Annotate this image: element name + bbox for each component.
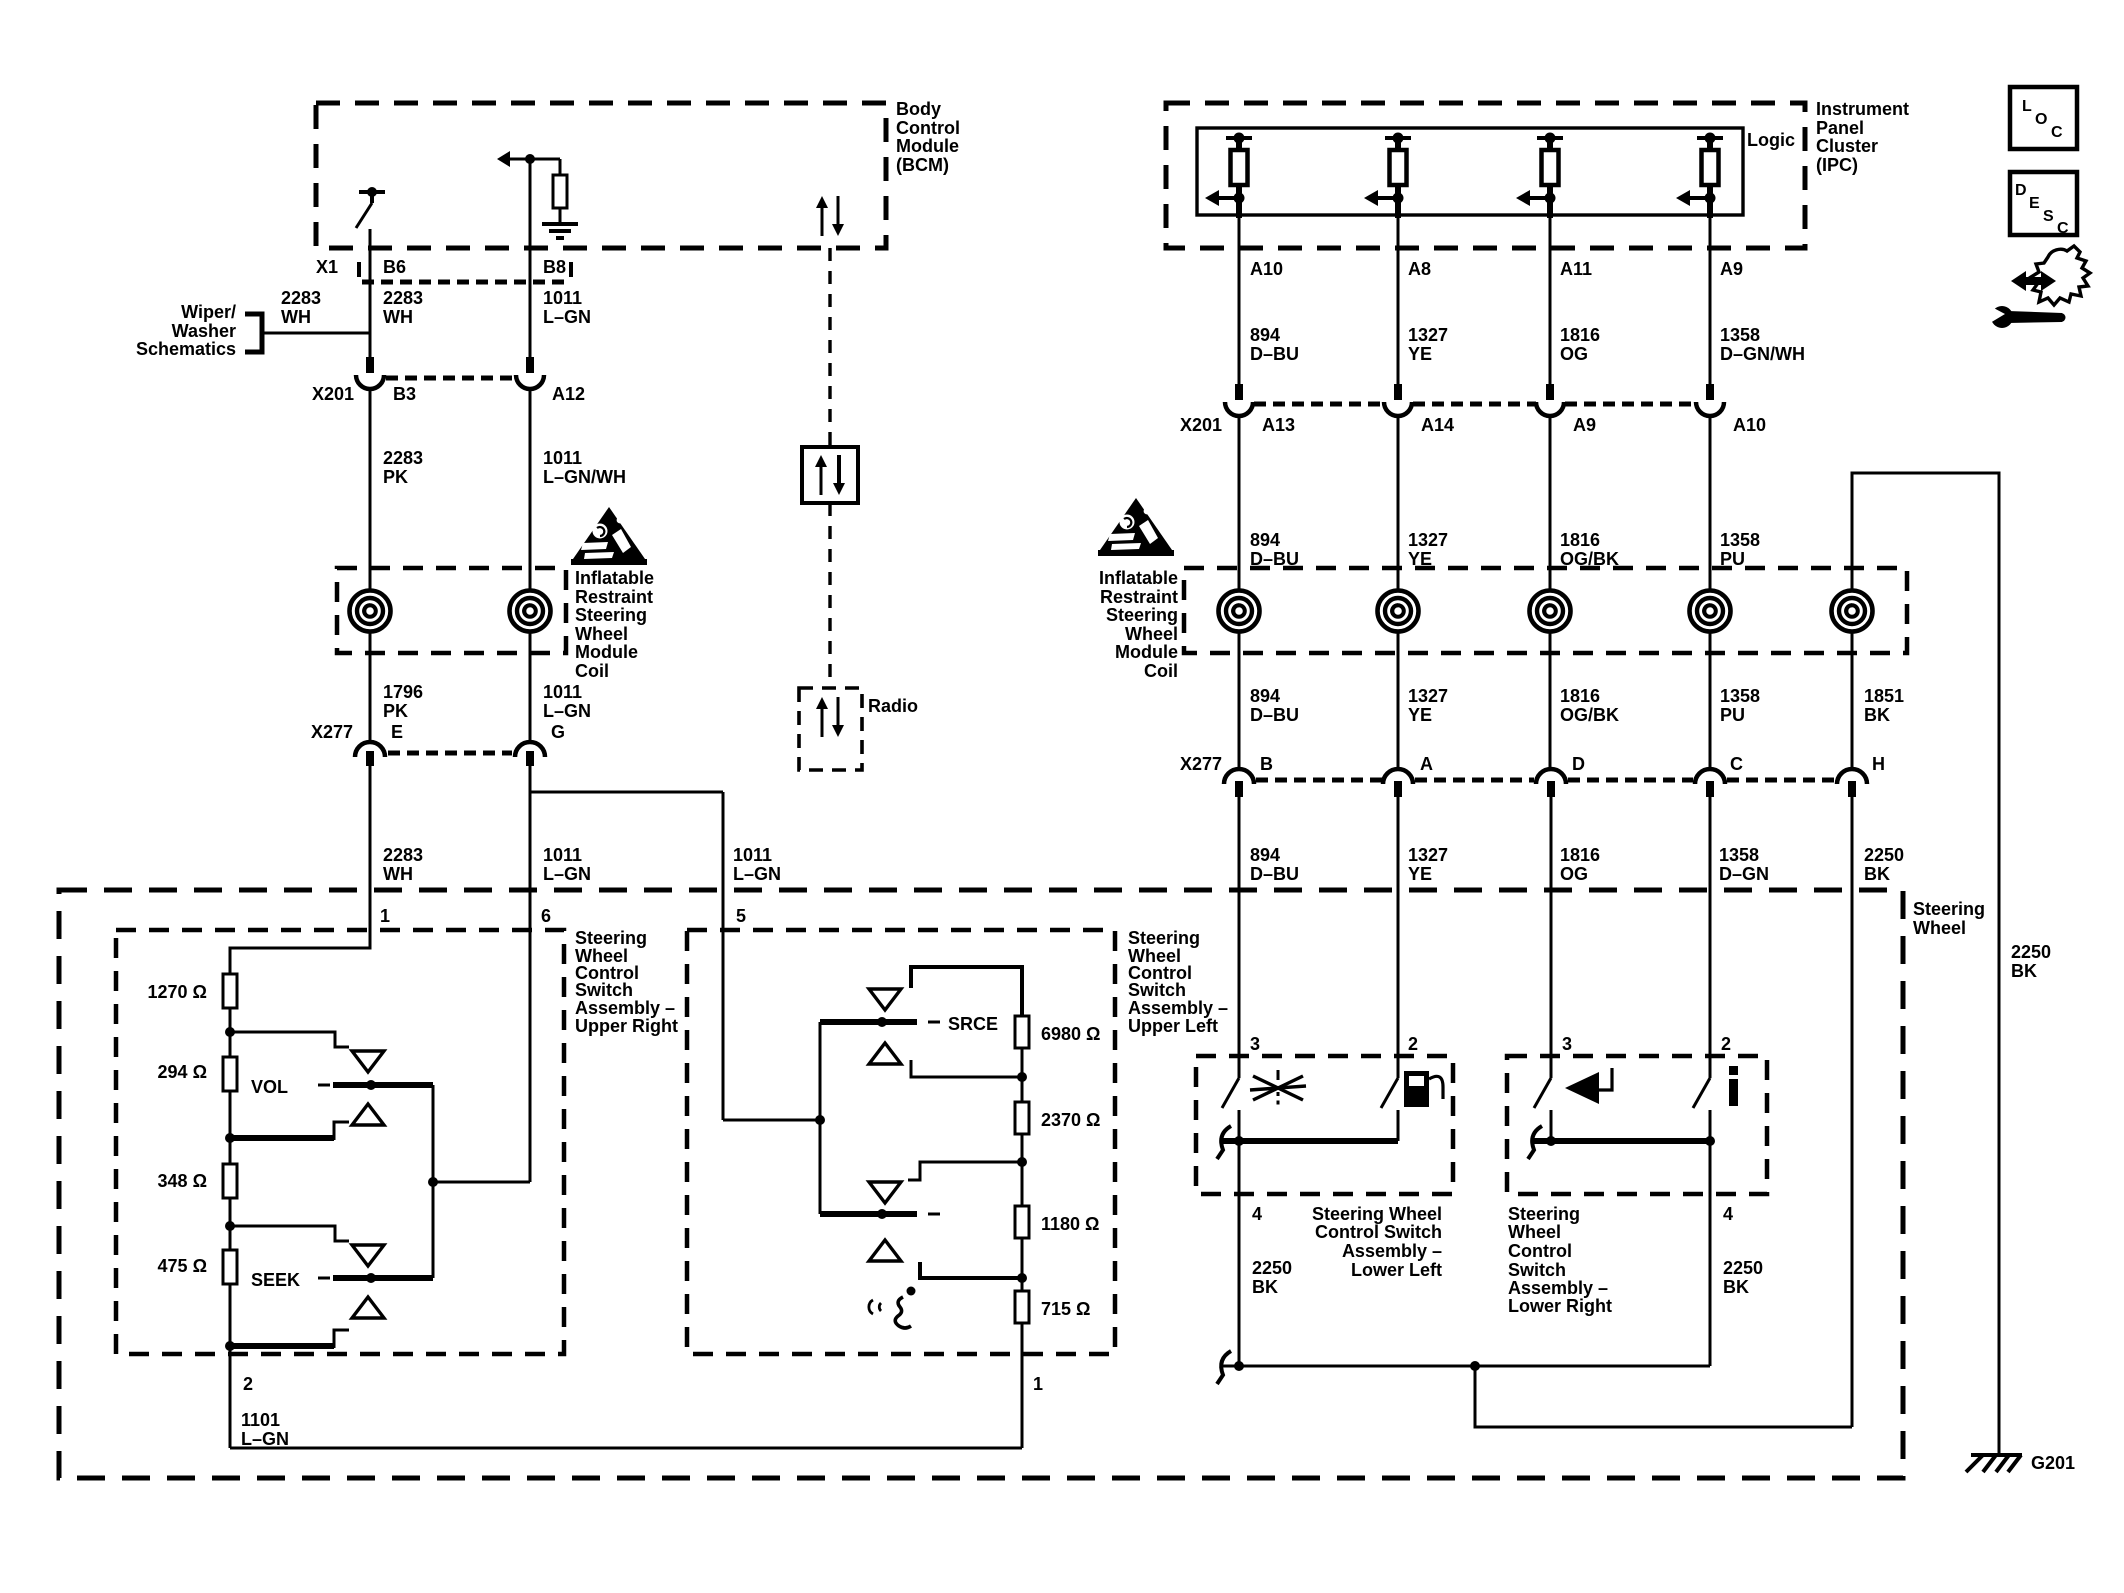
svg-text:SRCE: SRCE — [948, 1014, 998, 1034]
svg-text:Coil: Coil — [575, 661, 609, 681]
wire: ground bus to 2250 BK return — [1475, 1366, 1852, 1427]
svg-text:1270 Ω: 1270 Ω — [148, 982, 207, 1002]
svg-text:Control: Control — [1508, 1241, 1572, 1261]
resistor 475 ohm — [223, 1250, 237, 1284]
component box: Inflatable Restraint Steering Wheel Module Coil (left) — [337, 568, 566, 653]
wires: X201 to coil (right) — [1238, 415, 1241, 590]
svg-text:2: 2 — [1408, 1034, 1418, 1054]
svg-text:WH: WH — [383, 307, 413, 327]
warning triangle: airbag caution (right) — [1100, 498, 1172, 550]
svg-text:Steering: Steering — [1106, 605, 1178, 625]
svg-text:Radio: Radio — [868, 696, 918, 716]
svg-text:BK: BK — [1864, 705, 1890, 725]
svg-text:E: E — [391, 722, 403, 742]
svg-text:B: B — [1260, 754, 1273, 774]
svg-text:X201: X201 — [1180, 415, 1222, 435]
wire: 1327 YE to lower-left switch pin 2 — [1397, 797, 1400, 1078]
svg-text:D–BU: D–BU — [1250, 864, 1299, 884]
svg-text:1816: 1816 — [1560, 845, 1600, 865]
svg-text:Module: Module — [896, 136, 959, 156]
second switch up triangle — [869, 1182, 901, 1203]
svg-text:L: L — [2022, 98, 2032, 115]
svg-text:894: 894 — [1250, 686, 1280, 706]
second switch down fixed contact (bold) — [920, 1262, 1022, 1278]
svg-text:Switch: Switch — [1508, 1260, 1566, 1280]
wire segment + node D (SEEK down tap) — [229, 1284, 232, 1354]
svg-text:BK: BK — [1252, 1277, 1278, 1297]
wire: circuit 2283 WH, X277 E down to switch pin 1 — [369, 766, 372, 948]
svg-text:D–BU: D–BU — [1250, 705, 1299, 725]
legend icon: double arrow with wrench — [2011, 271, 2056, 291]
fuel pump icon — [1404, 1071, 1429, 1107]
IPC pull-up resistor R3 with sense arrow, column 3 — [1537, 136, 1563, 140]
svg-text:A13: A13 — [1262, 415, 1295, 435]
resistor 348 ohm — [223, 1164, 237, 1198]
wire: circuit 2283 PK, X201 B3 to coil — [369, 387, 372, 590]
legend box: DESC — [2010, 172, 2077, 235]
component box: Steering Wheel Control Switch Assembly - Upper Right — [116, 930, 564, 1354]
svg-text:1011: 1011 — [543, 682, 582, 702]
bus: lower-left switch common (bold) — [1222, 1138, 1398, 1144]
wire: IPC column 2 down to X201 — [1397, 218, 1400, 386]
svg-text:Cluster: Cluster — [1816, 136, 1878, 156]
svg-text:2283: 2283 — [383, 845, 423, 865]
svg-text:Coil: Coil — [1144, 661, 1178, 681]
VOL down triangle — [352, 1104, 384, 1125]
svg-text:4: 4 — [1252, 1204, 1262, 1224]
svg-text:X201: X201 — [312, 384, 354, 404]
IPC pull-up resistor R4 with sense arrow, column 4 — [1697, 136, 1723, 140]
svg-text:1011: 1011 — [543, 448, 582, 468]
resistor 715 ohm — [1015, 1291, 1029, 1323]
svg-text:(BCM): (BCM) — [896, 155, 949, 175]
switch blade pin 3 (mute/back) — [1534, 1078, 1551, 1108]
svg-text:B6: B6 — [383, 257, 406, 277]
wire segment + node A (VOL up tap) — [229, 1008, 232, 1057]
svg-text:2370 Ω: 2370 Ω — [1041, 1110, 1100, 1130]
svg-text:Wheel: Wheel — [1913, 918, 1966, 938]
svg-text:1358: 1358 — [1720, 325, 1760, 345]
serial data node box with up/down arrows — [802, 447, 858, 503]
wire: coil to X277 G — [529, 632, 532, 740]
SRCE common contact (bold) — [820, 1019, 917, 1025]
connector X277 pin E — [355, 742, 385, 757]
switch blade pin 2 (fuel info) — [1381, 1078, 1398, 1108]
svg-text:H: H — [1872, 754, 1885, 774]
resistor 1180 ohm — [1015, 1206, 1029, 1238]
serial data up/down arrows inside BCM — [821, 206, 824, 236]
svg-text:O: O — [2035, 111, 2047, 128]
svg-text:Wheel: Wheel — [575, 624, 628, 644]
svg-text:1: 1 — [380, 906, 390, 926]
module box: Body Control Module (BCM) — [316, 103, 886, 248]
svg-text:Steering: Steering — [1913, 899, 1985, 919]
connector X201 pin B3 — [366, 357, 374, 373]
svg-text:S: S — [2043, 208, 2054, 225]
svg-text:Steering: Steering — [575, 605, 647, 625]
svg-text:D–BU: D–BU — [1250, 344, 1299, 364]
svg-text:WH: WH — [383, 864, 413, 884]
svg-text:Steering: Steering — [575, 928, 647, 948]
svg-text:Switch: Switch — [575, 980, 633, 1000]
svg-text:A11: A11 — [1560, 259, 1592, 279]
SEEK down fixed contact (bold) — [230, 1343, 334, 1349]
wire: pin 4 down (lower right) — [1709, 1141, 1712, 1366]
svg-text:B8: B8 — [543, 257, 566, 277]
svg-text:Module: Module — [575, 642, 638, 662]
wire: 1816 OG to lower-right switch pin 3 — [1550, 797, 1553, 1078]
svg-text:X277: X277 — [311, 722, 353, 742]
VOL common contact (bold) with junction — [318, 1084, 330, 1087]
svg-text:1327: 1327 — [1408, 530, 1448, 550]
svg-text:Wiper/: Wiper/ — [181, 302, 236, 322]
svg-text:6980 Ω: 6980 Ω — [1041, 1024, 1100, 1044]
svg-text:1327: 1327 — [1408, 845, 1448, 865]
svg-text:Assembly –: Assembly – — [1342, 1241, 1442, 1261]
svg-text:D: D — [2015, 182, 2027, 199]
svg-text:4: 4 — [1723, 1204, 1733, 1224]
svg-text:Wheel: Wheel — [1125, 624, 1178, 644]
assembly box: Steering Wheel — [59, 890, 1903, 1478]
svg-text:YE: YE — [1408, 344, 1432, 364]
svg-text:2250: 2250 — [2011, 942, 2051, 962]
wire: coil to X277 E — [369, 632, 372, 740]
svg-text:A9: A9 — [1720, 259, 1743, 279]
svg-text:894: 894 — [1250, 530, 1280, 550]
second switch down triangle — [869, 1240, 901, 1261]
svg-text:C: C — [1730, 754, 1743, 774]
svg-text:Switch: Switch — [1128, 980, 1186, 1000]
svg-text:Logic: Logic — [1747, 130, 1795, 150]
wire + node (below 1180) — [1021, 1238, 1024, 1291]
wire segment + node B (VOL down tap) — [229, 1091, 232, 1164]
svg-text:Washer: Washer — [172, 321, 236, 341]
wire: circuit 1011 L-GN/WH, X201 A12 to coil — [529, 387, 532, 590]
svg-text:2283: 2283 — [281, 288, 321, 308]
svg-text:G: G — [551, 722, 565, 742]
SEEK down triangle — [352, 1297, 384, 1318]
wire: pin 1 jog to resistor ladder — [230, 890, 370, 974]
svg-text:OG: OG — [1560, 344, 1588, 364]
connector X277 pin G — [515, 742, 545, 757]
SRCE down triangle — [869, 1043, 901, 1064]
warning triangle: airbag caution (left) — [573, 507, 645, 559]
svg-text:1358: 1358 — [1720, 530, 1760, 550]
svg-text:Lower Left: Lower Left — [1351, 1260, 1442, 1280]
connector X201 dotted line (left) — [386, 376, 514, 381]
svg-text:1327: 1327 — [1408, 325, 1448, 345]
svg-text:C: C — [2057, 220, 2069, 237]
svg-text:5: 5 — [736, 906, 746, 926]
svg-text:348 Ω: 348 Ω — [158, 1171, 207, 1191]
VOL down fixed contact (bold) — [230, 1135, 334, 1141]
connector X201 pins A13 A14 A9 A10 — [1235, 384, 1243, 400]
svg-text:2250: 2250 — [1252, 1258, 1292, 1278]
component box: Steering Wheel Control Switch Assembly - Lower Left — [1196, 1056, 1453, 1194]
svg-text:894: 894 — [1250, 325, 1280, 345]
svg-text:D: D — [1572, 754, 1585, 774]
svg-text:Control: Control — [896, 118, 960, 138]
dashed serial data line to Radio — [828, 503, 831, 688]
svg-text:(IPC): (IPC) — [1816, 155, 1858, 175]
wire: branch to Wiper/Washer Schematics — [262, 332, 370, 335]
resistor 294 ohm — [223, 1057, 237, 1091]
svg-text:6: 6 — [541, 906, 551, 926]
wire: circuit 2283 WH from BCM B6 — [369, 248, 372, 359]
svg-text:Panel: Panel — [1816, 118, 1864, 138]
switch S1 inside BCM (discrete input) — [359, 190, 385, 194]
svg-text:1796: 1796 — [383, 682, 423, 702]
SEEK up fixed contact — [230, 1226, 349, 1241]
svg-text:G201: G201 — [2031, 1453, 2075, 1473]
mute/previous icon — [1565, 1072, 1599, 1104]
svg-text:OG: OG — [1560, 864, 1588, 884]
svg-text:1358: 1358 — [1720, 686, 1760, 706]
svg-text:Schematics: Schematics — [136, 339, 236, 359]
legend box: LOC — [2010, 87, 2077, 149]
svg-text:Steering: Steering — [1128, 928, 1200, 948]
svg-text:BK: BK — [1723, 1277, 1749, 1297]
spring hook (lower left bus) — [1217, 1126, 1231, 1159]
wire: circuit 1011 L-GN from BCM B8 — [529, 248, 532, 359]
coil spiral (left coil, circuit 1011) — [510, 591, 551, 632]
svg-text:WH: WH — [281, 307, 311, 327]
ground symbol G201 — [1971, 1453, 2022, 1457]
connector X201 pin A12 — [526, 357, 534, 373]
svg-text:475 Ω: 475 Ω — [158, 1256, 207, 1276]
svg-text:Inflatable: Inflatable — [1099, 568, 1178, 588]
VOL up fixed contact — [230, 1032, 349, 1047]
svg-text:A10: A10 — [1250, 259, 1283, 279]
svg-text:Assembly –: Assembly – — [1508, 1278, 1608, 1298]
SRCE up triangle — [869, 989, 901, 1010]
svg-text:2: 2 — [243, 1374, 253, 1394]
svg-text:1816: 1816 — [1560, 325, 1600, 345]
IPC pull-up resistor R1 with sense arrow, column 1 — [1226, 136, 1252, 140]
svg-text:B3: B3 — [393, 384, 416, 404]
svg-text:E: E — [2029, 195, 2040, 212]
SRCE up fixed contact to resistor chain — [911, 967, 1022, 1016]
second switch up fixed contact — [908, 1162, 1022, 1180]
wire: 1101 L-GN bottom bus — [230, 1447, 1022, 1450]
svg-text:D–GN/WH: D–GN/WH — [1720, 344, 1805, 364]
IPC pull-up resistor R2 with sense arrow, column 2 — [1385, 136, 1411, 140]
svg-text:X1: X1 — [316, 257, 338, 277]
svg-text:A10: A10 — [1733, 415, 1766, 435]
arrow: signal to BCM logic (left) — [497, 151, 510, 167]
bus: switch grounds joined — [1222, 1365, 1710, 1368]
svg-text:894: 894 — [1250, 845, 1280, 865]
svg-text:2250: 2250 — [1723, 1258, 1763, 1278]
wire + node (below 6980) — [1021, 1048, 1024, 1102]
resistor inside BCM (pull-up) with ground — [509, 158, 560, 161]
svg-text:1816: 1816 — [1560, 686, 1600, 706]
component box: Steering Wheel Control Switch Assembly - Upper Left — [687, 930, 1115, 1354]
svg-text:OG/BK: OG/BK — [1560, 705, 1619, 725]
wire: pin 5 to switch commons junction — [723, 1119, 820, 1122]
svg-text:PK: PK — [383, 701, 408, 721]
ground symbol inside BCM — [542, 222, 578, 226]
svg-text:A14: A14 — [1421, 415, 1454, 435]
spring hook (lower right bus) — [1528, 1126, 1542, 1159]
svg-text:1011: 1011 — [733, 845, 772, 865]
wire: 894 D-BU to lower-left switch pin 3 — [1238, 797, 1241, 1078]
wire: 1358 D-GN to lower-right switch pin 2 — [1709, 797, 1712, 1078]
svg-text:D–GN: D–GN — [1719, 864, 1769, 884]
wire: 2250 BK from X277 H down — [1851, 797, 1854, 1427]
wire: common riser — [819, 1022, 822, 1214]
svg-text:1180 Ω: 1180 Ω — [1041, 1214, 1099, 1234]
svg-text:Upper Left: Upper Left — [1128, 1016, 1218, 1036]
svg-text:A9: A9 — [1573, 415, 1596, 435]
svg-text:2283: 2283 — [383, 448, 423, 468]
wires: coil to X277 (right) — [1238, 632, 1241, 770]
wire: circuit 1011 L-GN, X277 G down to switch pin 6 — [529, 766, 532, 1182]
svg-text:L–GN/WH: L–GN/WH — [543, 467, 626, 487]
svg-text:1327: 1327 — [1408, 686, 1448, 706]
svg-text:VOL: VOL — [251, 1077, 288, 1097]
svg-text:PK: PK — [383, 467, 408, 487]
svg-text:L–GN: L–GN — [241, 1429, 289, 1449]
svg-text:YE: YE — [1408, 864, 1432, 884]
wire: 1011 L-GN branch to pin 5 — [531, 791, 723, 794]
svg-text:1101: 1101 — [241, 1410, 280, 1430]
bus: lower-right switch common (bold) — [1533, 1138, 1710, 1144]
wire segment + node C (SEEK up tap) — [229, 1198, 232, 1250]
spring hook (ground bus) — [1217, 1351, 1231, 1384]
svg-text:3: 3 — [1250, 1034, 1260, 1054]
svg-text:L–GN: L–GN — [543, 864, 591, 884]
svg-text:L–GN: L–GN — [543, 307, 591, 327]
logic block inside IPC — [1197, 128, 1743, 215]
component box: Steering Wheel Control Switch Assembly - Lower Right — [1507, 1056, 1767, 1194]
svg-text:A: A — [1420, 754, 1433, 774]
svg-text:Module: Module — [1115, 642, 1178, 662]
svg-text:Steering Wheel: Steering Wheel — [1312, 1204, 1442, 1224]
svg-text:L–GN: L–GN — [543, 701, 591, 721]
svg-text:Assembly –: Assembly – — [575, 998, 675, 1018]
svg-text:2: 2 — [1721, 1034, 1731, 1054]
wire: IPC column 4 down to X201 — [1709, 218, 1712, 386]
wire: B8 net inside BCM — [529, 159, 532, 248]
svg-text:SEEK: SEEK — [251, 1270, 300, 1290]
svg-text:Body: Body — [896, 99, 941, 119]
windshield washer icon — [1253, 1076, 1303, 1100]
resistor 6980 ohm — [1015, 1016, 1029, 1048]
pin 2 label and wire — [229, 1354, 232, 1448]
svg-text:1: 1 — [1033, 1374, 1043, 1394]
wire: VOL/SEEK commons to pin 6, junction — [432, 1085, 435, 1278]
svg-text:2250: 2250 — [1864, 845, 1904, 865]
svg-text:Instrument: Instrument — [1816, 99, 1909, 119]
component box: Inflatable Restraint Steering Wheel Module Coil (right) — [1184, 568, 1907, 653]
wire: IPC column 1 down to X201 — [1238, 218, 1241, 386]
wire: pin 4 down (lower left) — [1238, 1141, 1241, 1366]
svg-text:Assembly –: Assembly – — [1128, 998, 1228, 1018]
resistor 2370 ohm — [1015, 1102, 1029, 1134]
wire: to pin 1 — [1021, 1323, 1024, 1448]
junction: B8 wire to pull-up — [525, 154, 535, 164]
svg-text:YE: YE — [1408, 705, 1432, 725]
svg-text:1816: 1816 — [1560, 530, 1600, 550]
coil spirals (right coil) — [1219, 591, 1260, 632]
svg-text:PU: PU — [1720, 705, 1745, 725]
svg-text:C: C — [2051, 124, 2063, 141]
switch blade pin 3 (washer) — [1222, 1078, 1239, 1108]
info icon — [1729, 1066, 1738, 1075]
svg-text:715 Ω: 715 Ω — [1041, 1299, 1090, 1319]
svg-text:3: 3 — [1562, 1034, 1572, 1054]
voice recognition icon — [869, 1300, 873, 1314]
resistor 1270 ohm — [223, 974, 237, 1008]
svg-text:Upper Right: Upper Right — [575, 1016, 678, 1036]
svg-text:1358: 1358 — [1719, 845, 1759, 865]
svg-text:Lower Right: Lower Right — [1508, 1296, 1612, 1316]
connector X277 dotted line (left) — [388, 751, 512, 756]
svg-text:294 Ω: 294 Ω — [158, 1062, 207, 1082]
connector X277 pins B A D C H — [1224, 769, 1254, 784]
SEEK common contact (bold) — [318, 1277, 330, 1280]
SRCE down fixed contact — [911, 1060, 1022, 1077]
svg-text:Restraint: Restraint — [1100, 587, 1178, 607]
coil spiral (left coil, circuit 2283) — [350, 591, 391, 632]
svg-text:X277: X277 — [1180, 754, 1222, 774]
svg-text:Control Switch: Control Switch — [1315, 1222, 1442, 1242]
module box: Instrument Panel Cluster (IPC) — [1166, 103, 1805, 248]
svg-text:BK: BK — [2011, 961, 2037, 981]
svg-text:1011: 1011 — [543, 288, 582, 308]
svg-text:1851: 1851 — [1864, 686, 1904, 706]
wire: IPC column 3 down to X201 — [1549, 218, 1552, 386]
second switch common contact (bold) — [820, 1211, 917, 1217]
svg-text:Inflatable: Inflatable — [575, 568, 654, 588]
svg-text:BK: BK — [1864, 864, 1890, 884]
wire + node (below 2370) — [1021, 1134, 1024, 1206]
svg-text:1011: 1011 — [543, 845, 582, 865]
dashed serial data line from BCM — [828, 248, 831, 447]
svg-text:A8: A8 — [1408, 259, 1431, 279]
SEEK up triangle — [352, 1245, 384, 1266]
wire: ground return top run 2250 BK to G201 — [1852, 473, 1999, 1455]
svg-text:L–GN: L–GN — [733, 864, 781, 884]
svg-text:Steering: Steering — [1508, 1204, 1580, 1224]
VOL up triangle — [352, 1051, 384, 1072]
svg-text:Restraint: Restraint — [575, 587, 653, 607]
switch blade pin 2 (info) — [1693, 1078, 1710, 1108]
svg-text:A12: A12 — [552, 384, 585, 404]
svg-text:Wheel: Wheel — [1508, 1222, 1561, 1242]
svg-text:2283: 2283 — [383, 288, 423, 308]
module box: Radio — [799, 688, 862, 770]
